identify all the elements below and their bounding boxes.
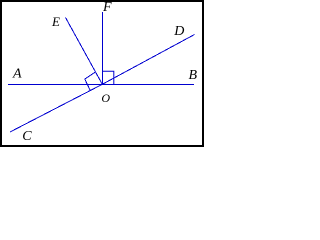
ray OD (upper-right part of line CD) [102, 35, 194, 85]
svg-text:D: D [173, 24, 184, 39]
right-angle mark FOB (upright square at O) [103, 71, 114, 84]
svg-text:F: F [102, 0, 112, 15]
right-angle mark EOC (tilted square at O) [85, 72, 96, 90]
svg-text:C: C [22, 129, 32, 144]
ray OF (vertical, F perpendicular to AB) [102, 12, 104, 85]
ray OC (lower-left part of line CD) [10, 84, 102, 132]
ray OE [66, 18, 103, 85]
svg-text:O: O [101, 91, 110, 105]
svg-text:A: A [12, 67, 22, 82]
svg-text:E: E [51, 14, 60, 29]
line AB (horizontal through O) [8, 84, 194, 86]
svg-text:B: B [189, 68, 198, 83]
